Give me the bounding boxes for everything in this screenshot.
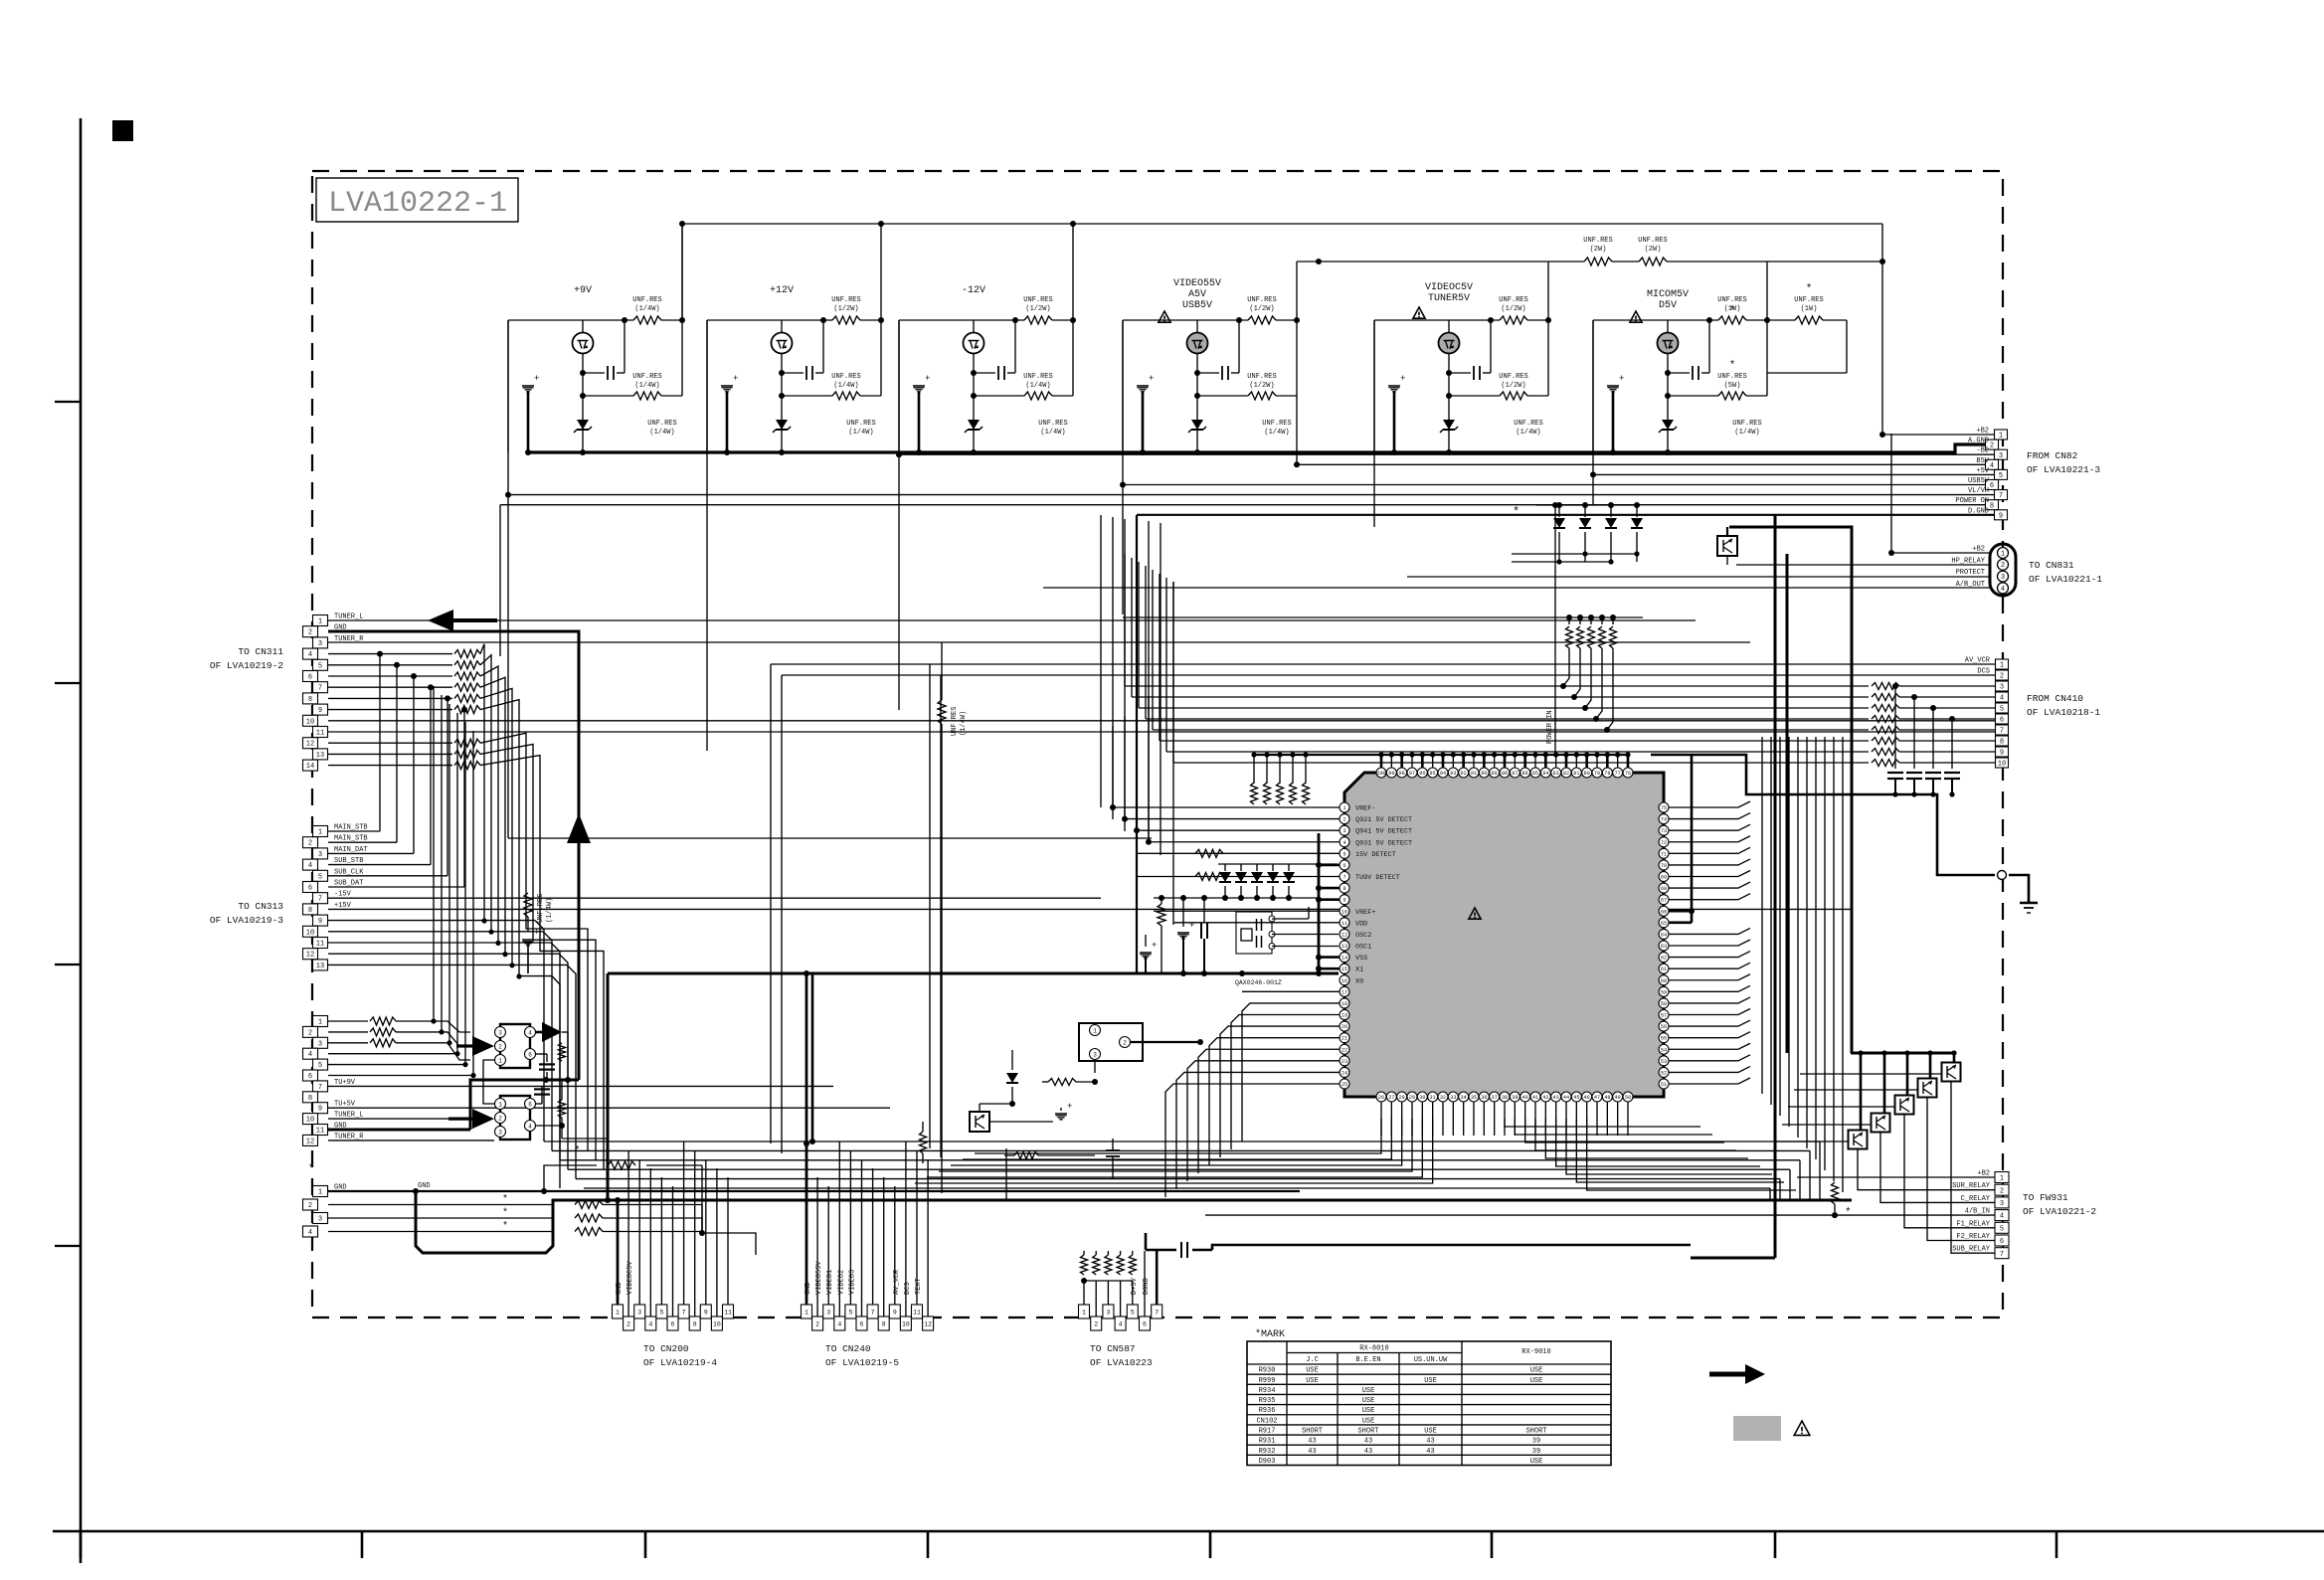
svg-text:4: 4 (308, 651, 312, 659)
svg-text:R930: R930 (1259, 1367, 1276, 1375)
svg-text:9: 9 (1999, 512, 2003, 520)
svg-text:29: 29 (1409, 1095, 1415, 1101)
svg-text:USE: USE (1362, 1387, 1375, 1395)
svg-text:+: + (1067, 1102, 1072, 1112)
svg-text:(1/4W): (1/4W) (546, 898, 554, 923)
svg-text:OF LVA10223: OF LVA10223 (1090, 1357, 1153, 1368)
svg-text:SUR_RELAY: SUR_RELAY (1952, 1182, 1991, 1190)
svg-text:AV_VCR: AV_VCR (1965, 657, 1991, 665)
svg-text:3: 3 (498, 1029, 502, 1036)
svg-text:6: 6 (308, 1073, 312, 1081)
svg-text:+: + (534, 374, 539, 384)
svg-text:VIDEO2: VIDEO2 (837, 1270, 845, 1295)
svg-text:99: 99 (1388, 771, 1394, 777)
svg-text:USB5V: USB5V (1182, 300, 1212, 311)
svg-text:3: 3 (318, 851, 322, 859)
svg-text:(1W): (1W) (1801, 305, 1818, 313)
svg-text:D903: D903 (1259, 1458, 1276, 1466)
svg-text:+5V: +5V (1976, 467, 1989, 475)
svg-text:UNF.RES: UNF.RES (1638, 237, 1667, 245)
svg-text:2: 2 (1123, 1039, 1127, 1046)
svg-text:(1/2W): (1/2W) (1249, 305, 1274, 313)
svg-text:5: 5 (2000, 706, 2004, 714)
svg-text:(1/4W): (1/4W) (649, 429, 674, 437)
svg-text:1: 1 (1082, 1309, 1086, 1316)
svg-text:MICOM5V: MICOM5V (1647, 289, 1689, 300)
svg-text:13: 13 (316, 752, 324, 760)
svg-text:5: 5 (848, 1309, 852, 1316)
svg-text:(1/2W): (1/2W) (1501, 305, 1525, 313)
svg-text:SHORT: SHORT (1525, 1428, 1546, 1436)
svg-text:5: 5 (659, 1309, 663, 1316)
svg-text:J.C: J.C (1306, 1356, 1319, 1364)
svg-text:*: * (502, 1207, 508, 1219)
svg-text:43: 43 (1308, 1448, 1316, 1456)
svg-text:8: 8 (1990, 502, 1994, 510)
svg-text:7: 7 (318, 1084, 322, 1092)
svg-text:71: 71 (1661, 851, 1667, 857)
svg-text:13: 13 (316, 963, 324, 970)
svg-text:7: 7 (1999, 492, 2003, 500)
svg-text:60: 60 (1661, 978, 1667, 984)
svg-text:2: 2 (626, 1320, 630, 1327)
svg-text:UNF.RES: UNF.RES (1247, 373, 1276, 381)
svg-text:39: 39 (1512, 1095, 1518, 1101)
svg-text:UNF.RES: UNF.RES (647, 420, 676, 428)
svg-text:CN102: CN102 (1256, 1417, 1277, 1425)
svg-text:(1/2W): (1/2W) (1249, 382, 1274, 390)
svg-text:3: 3 (2001, 574, 2005, 582)
svg-text:12: 12 (1341, 932, 1347, 938)
svg-text:1: 1 (2001, 550, 2005, 558)
svg-text:5: 5 (1999, 472, 2003, 480)
svg-text:98: 98 (1399, 771, 1405, 777)
svg-text:-15V: -15V (334, 891, 352, 899)
svg-text:*: * (1845, 1207, 1852, 1219)
svg-text:UNF.RES: UNF.RES (1717, 373, 1746, 381)
svg-text:(1/4W): (1/4W) (960, 711, 968, 736)
svg-text:43: 43 (1426, 1438, 1434, 1446)
svg-text:VIDEO3: VIDEO3 (848, 1270, 856, 1295)
svg-text:TO CN311: TO CN311 (238, 646, 283, 657)
svg-text:43: 43 (1364, 1448, 1372, 1456)
svg-text:2: 2 (1342, 817, 1345, 823)
svg-text:32: 32 (1440, 1095, 1446, 1101)
svg-text:UNF.RES: UNF.RES (1794, 296, 1823, 304)
svg-text:SUB_RELAY: SUB_RELAY (1952, 1246, 1991, 1254)
svg-text:59: 59 (1661, 989, 1667, 995)
svg-text:+B2: +B2 (1977, 1170, 1990, 1178)
svg-text:47: 47 (1594, 1095, 1600, 1101)
svg-text:HP_RELAY: HP_RELAY (1951, 557, 1985, 565)
svg-text:UNF.RES: UNF.RES (831, 373, 860, 381)
svg-text:43: 43 (1308, 1438, 1316, 1446)
svg-text:8: 8 (882, 1320, 886, 1327)
svg-text:12: 12 (306, 741, 314, 749)
svg-text:37: 37 (1492, 1095, 1498, 1101)
svg-text:+B2: +B2 (1972, 546, 1985, 554)
svg-text:SUB_CLK: SUB_CLK (334, 868, 364, 876)
svg-text:2: 2 (308, 1029, 312, 1037)
svg-text:4: 4 (1990, 462, 1994, 470)
svg-text:88: 88 (1502, 771, 1508, 777)
svg-text:43: 43 (1553, 1095, 1559, 1101)
svg-text:2: 2 (2000, 673, 2004, 681)
svg-text:39: 39 (1532, 1438, 1540, 1446)
svg-text:B.E.EN: B.E.EN (1355, 1356, 1380, 1364)
svg-text:USE: USE (1530, 1377, 1543, 1385)
svg-text:+: + (1619, 374, 1624, 384)
svg-text:53: 53 (1661, 1059, 1667, 1065)
svg-text:81: 81 (1573, 771, 1579, 777)
svg-text:89: 89 (1492, 771, 1498, 777)
svg-text:57: 57 (1661, 1013, 1667, 1019)
svg-text:UNF.RES: UNF.RES (1717, 296, 1746, 304)
svg-text:6: 6 (528, 1101, 532, 1108)
svg-text:93: 93 (1450, 771, 1456, 777)
svg-text:C_RELAY: C_RELAY (1961, 1195, 1991, 1203)
svg-text:+: + (1189, 921, 1194, 931)
svg-text:POWER IN: POWER IN (1546, 710, 1554, 744)
svg-text:*: * (1729, 360, 1736, 372)
svg-text:72: 72 (1661, 840, 1667, 846)
svg-text:20: 20 (1341, 1024, 1347, 1030)
svg-text:4: 4 (837, 1320, 841, 1327)
svg-text:VDD: VDD (1355, 920, 1367, 928)
svg-text:77: 77 (1615, 771, 1621, 777)
svg-text:B5V: B5V (1976, 457, 1989, 465)
svg-text:62: 62 (1661, 956, 1667, 962)
svg-text:39: 39 (1532, 1448, 1540, 1456)
svg-text:65: 65 (1661, 921, 1667, 927)
svg-text:UNF.RES: UNF.RES (951, 707, 959, 736)
svg-text:3: 3 (1999, 452, 2003, 460)
svg-text:FROM CN82: FROM CN82 (2027, 450, 2078, 461)
svg-text:USE: USE (1530, 1367, 1543, 1375)
svg-text:87: 87 (1512, 771, 1518, 777)
svg-text:TUNER_L: TUNER_L (334, 614, 363, 621)
svg-text:US.UN.UW: US.UN.UW (1414, 1356, 1448, 1364)
svg-text:21: 21 (1341, 1036, 1347, 1042)
svg-text:VIDEO55V: VIDEO55V (1173, 278, 1221, 289)
svg-text:(1/4W): (1/4W) (1734, 429, 1759, 437)
svg-text:VSS: VSS (1355, 955, 1367, 963)
svg-text:55: 55 (1661, 1036, 1667, 1042)
svg-text:75: 75 (1661, 805, 1667, 811)
svg-text:(2W): (2W) (1645, 246, 1662, 254)
svg-text:6: 6 (2000, 717, 2004, 725)
svg-text:-B2: -B2 (1976, 447, 1989, 455)
svg-text:1: 1 (1999, 433, 2003, 440)
svg-text:(1/4W): (1/4W) (1516, 429, 1540, 437)
svg-text:UNF.RES: UNF.RES (1583, 237, 1612, 245)
svg-text:6: 6 (860, 1320, 864, 1327)
svg-text:Q931 5V DETECT: Q931 5V DETECT (1355, 839, 1412, 847)
svg-text:6: 6 (528, 1051, 532, 1058)
svg-text:44: 44 (1563, 1095, 1569, 1101)
svg-text:10: 10 (1341, 909, 1347, 915)
svg-text:D5V: D5V (1659, 300, 1677, 311)
svg-text:MAIN_STB: MAIN_STB (334, 835, 368, 843)
svg-text:52: 52 (1661, 1070, 1667, 1076)
svg-text:8: 8 (308, 696, 312, 704)
svg-text:1: 1 (1342, 805, 1345, 811)
svg-text:90: 90 (1481, 771, 1487, 777)
svg-text:79: 79 (1594, 771, 1600, 777)
svg-text:RX-8010: RX-8010 (1359, 1345, 1388, 1353)
svg-text:OF LVA10221-1: OF LVA10221-1 (2029, 574, 2102, 585)
svg-text:100: 100 (1376, 771, 1385, 777)
svg-text:30: 30 (1419, 1095, 1425, 1101)
svg-text:QAX0246-001Z: QAX0246-001Z (1235, 979, 1282, 986)
svg-text:VIDEOC5V: VIDEOC5V (1425, 282, 1473, 293)
svg-text:14: 14 (306, 763, 314, 771)
svg-text:*: * (1806, 283, 1813, 295)
svg-text:6: 6 (308, 674, 312, 682)
svg-text:3: 3 (318, 640, 322, 648)
svg-text:41: 41 (1532, 1095, 1538, 1101)
svg-text:R935: R935 (1259, 1397, 1276, 1405)
svg-text:1: 1 (318, 618, 322, 626)
svg-text:R932: R932 (1259, 1448, 1276, 1456)
svg-text:4/B_IN: 4/B_IN (1965, 1208, 1990, 1216)
svg-text:51: 51 (1661, 1082, 1667, 1088)
svg-text:SUB_STB: SUB_STB (334, 857, 363, 865)
svg-text:DCS: DCS (1977, 668, 1990, 676)
svg-text:UNF.RES: UNF.RES (632, 296, 661, 304)
svg-text:F1_RELAY: F1_RELAY (1956, 1220, 1990, 1228)
svg-text:+: + (925, 374, 930, 384)
svg-text:POWER ON: POWER ON (1955, 497, 1989, 505)
svg-text:OF LVA10221-3: OF LVA10221-3 (2027, 464, 2100, 475)
svg-text:X1: X1 (1355, 966, 1363, 974)
svg-text:OSC1: OSC1 (1355, 944, 1371, 952)
svg-text:67: 67 (1661, 898, 1667, 904)
svg-text:4: 4 (2000, 1213, 2004, 1221)
svg-text:4: 4 (2000, 695, 2004, 703)
svg-text:VIDEO55V: VIDEO55V (815, 1261, 823, 1295)
svg-text:6: 6 (671, 1320, 675, 1327)
svg-text:MAIN_DAT: MAIN_DAT (334, 846, 368, 854)
svg-text:45: 45 (1573, 1095, 1579, 1101)
svg-text:SHORT: SHORT (1302, 1428, 1323, 1436)
svg-text:91: 91 (1471, 771, 1477, 777)
svg-text:D+5V: D+5V (1131, 1277, 1139, 1295)
svg-text:USE: USE (1530, 1458, 1543, 1466)
svg-text:8: 8 (1342, 886, 1345, 892)
svg-text:12: 12 (924, 1320, 932, 1327)
svg-text:5: 5 (1342, 851, 1345, 857)
svg-text:10: 10 (306, 1117, 314, 1125)
svg-text:+9V: +9V (574, 285, 592, 296)
svg-text:UNF.RES: UNF.RES (1262, 420, 1291, 428)
svg-text:1: 1 (2000, 662, 2004, 670)
svg-text:+: + (1152, 941, 1157, 951)
svg-text:61: 61 (1661, 966, 1667, 972)
svg-text:(1/4W): (1/4W) (634, 382, 659, 390)
svg-text:23: 23 (1341, 1059, 1347, 1065)
svg-text:1: 1 (616, 1309, 620, 1316)
svg-text:4: 4 (2001, 586, 2005, 594)
svg-text:82: 82 (1563, 771, 1569, 777)
svg-text:(1/4W): (1/4W) (1040, 429, 1065, 437)
svg-text:DCS: DCS (904, 1282, 912, 1295)
svg-text:13: 13 (1341, 944, 1347, 950)
svg-text:86: 86 (1522, 771, 1528, 777)
svg-text:33: 33 (1450, 1095, 1456, 1101)
svg-text:+: + (534, 928, 539, 938)
svg-text:TU+9V: TU+9V (334, 1079, 356, 1087)
svg-text:6: 6 (308, 885, 312, 893)
svg-text:*MARK: *MARK (1255, 1328, 1285, 1340)
svg-text:OF LVA10221-2: OF LVA10221-2 (2023, 1206, 2096, 1217)
svg-text:8: 8 (308, 907, 312, 915)
svg-text:18: 18 (1341, 1001, 1347, 1007)
svg-text:80: 80 (1584, 771, 1590, 777)
svg-text:VIDEOC5V: VIDEOC5V (626, 1261, 634, 1295)
svg-text:1: 1 (804, 1309, 808, 1316)
svg-text:F2_RELAY: F2_RELAY (1956, 1233, 1990, 1241)
svg-text:11: 11 (1341, 921, 1347, 927)
svg-text:7: 7 (1342, 875, 1345, 881)
svg-text:MAIN_STB: MAIN_STB (334, 824, 368, 832)
svg-text:TO CN587: TO CN587 (1090, 1343, 1136, 1354)
svg-text:*: * (502, 1221, 508, 1233)
svg-text:1: 1 (318, 829, 322, 837)
svg-text:4: 4 (1342, 840, 1345, 846)
svg-text:7: 7 (871, 1309, 875, 1316)
svg-text:5: 5 (1131, 1309, 1135, 1316)
svg-text:63: 63 (1661, 944, 1667, 950)
svg-text:1: 1 (1093, 1027, 1097, 1034)
svg-text:25: 25 (1341, 1082, 1347, 1088)
svg-text:9: 9 (2000, 750, 2004, 758)
svg-text:VIDEO1: VIDEO1 (826, 1270, 834, 1295)
svg-text:5: 5 (318, 1062, 322, 1070)
svg-text:1: 1 (318, 1189, 322, 1197)
svg-text:3: 3 (318, 1216, 322, 1224)
svg-text:TO CN240: TO CN240 (825, 1343, 871, 1354)
svg-text:11: 11 (913, 1309, 921, 1316)
svg-text:3: 3 (1342, 828, 1345, 834)
svg-text:4: 4 (528, 1123, 532, 1130)
svg-text:70: 70 (1661, 863, 1667, 869)
svg-text:TO CN313: TO CN313 (238, 901, 283, 912)
svg-text:USE: USE (1362, 1397, 1375, 1405)
svg-text:19: 19 (1341, 1013, 1347, 1019)
svg-text:3: 3 (826, 1309, 830, 1316)
svg-text:(1/4W): (1/4W) (1025, 382, 1050, 390)
svg-text:9: 9 (893, 1309, 897, 1316)
svg-text:84: 84 (1542, 771, 1548, 777)
svg-text:UNF.RES: UNF.RES (537, 894, 545, 923)
svg-text:68: 68 (1661, 886, 1667, 892)
svg-text:4: 4 (308, 1051, 312, 1059)
svg-text:31: 31 (1430, 1095, 1436, 1101)
svg-text:USE: USE (1306, 1367, 1319, 1375)
svg-text:17: 17 (1341, 989, 1347, 995)
svg-text:12: 12 (306, 1138, 314, 1145)
svg-text:69: 69 (1661, 875, 1667, 881)
svg-text:9: 9 (318, 918, 322, 926)
svg-text:22: 22 (1341, 1047, 1347, 1053)
svg-text:RX-9010: RX-9010 (1521, 1348, 1550, 1356)
svg-text:SUB_DAT: SUB_DAT (334, 880, 363, 888)
svg-text:(1/2W): (1/2W) (833, 305, 858, 313)
svg-text:10: 10 (306, 929, 314, 937)
svg-text:R936: R936 (1259, 1407, 1276, 1415)
svg-text:4: 4 (528, 1029, 532, 1036)
svg-text:2: 2 (308, 1202, 312, 1210)
svg-text:USE: USE (1362, 1417, 1375, 1425)
svg-text:28: 28 (1399, 1095, 1405, 1101)
svg-text:GND: GND (418, 1182, 431, 1190)
svg-text:R934: R934 (1259, 1387, 1276, 1395)
svg-text:24: 24 (1341, 1070, 1347, 1076)
svg-text:R999: R999 (1259, 1377, 1276, 1385)
svg-text:2: 2 (308, 840, 312, 848)
svg-text:TU+5V: TU+5V (334, 1101, 356, 1109)
svg-text:9: 9 (318, 1106, 322, 1114)
svg-text:4: 4 (308, 1229, 312, 1237)
svg-text:4: 4 (648, 1320, 652, 1327)
svg-text:9: 9 (704, 1309, 708, 1316)
svg-text:(1/4W): (1/4W) (848, 429, 873, 437)
svg-text:(1/4W): (1/4W) (634, 305, 659, 313)
svg-text:USB5V: USB5V (1968, 477, 1990, 485)
svg-text:SHORT: SHORT (1357, 1428, 1378, 1436)
svg-text:85: 85 (1532, 771, 1538, 777)
svg-text:R931: R931 (1259, 1438, 1276, 1446)
svg-text:97: 97 (1409, 771, 1415, 777)
svg-text:*: * (502, 1194, 508, 1206)
svg-text:11: 11 (316, 730, 324, 738)
svg-text:7: 7 (2000, 1251, 2004, 1259)
svg-text:8: 8 (2000, 739, 2004, 747)
svg-text:X0: X0 (1355, 977, 1363, 985)
svg-text:50: 50 (1625, 1095, 1631, 1101)
svg-text:11: 11 (316, 941, 324, 949)
svg-text:TEXT: TEXT (915, 1278, 923, 1295)
svg-text:+: + (733, 374, 738, 384)
svg-text:5: 5 (318, 662, 322, 670)
svg-text:+12V: +12V (770, 285, 794, 296)
svg-text:7: 7 (318, 685, 322, 693)
svg-text:Q941 5V DETECT: Q941 5V DETECT (1355, 828, 1412, 836)
svg-text:6: 6 (1143, 1320, 1147, 1327)
svg-text:11: 11 (724, 1309, 732, 1316)
svg-text:10: 10 (902, 1320, 910, 1327)
svg-text:*: * (1513, 505, 1520, 519)
svg-text:USE: USE (1362, 1407, 1375, 1415)
svg-text:UNF.RES: UNF.RES (1514, 420, 1542, 428)
svg-text:58: 58 (1661, 1001, 1667, 1007)
svg-text:3: 3 (498, 1129, 502, 1136)
svg-text:92: 92 (1461, 771, 1467, 777)
svg-text:A5V: A5V (1188, 289, 1206, 300)
svg-text:(1/2W): (1/2W) (1501, 382, 1525, 390)
svg-text:+B2: +B2 (1976, 428, 1989, 436)
svg-text:27: 27 (1388, 1095, 1394, 1101)
svg-text:+: + (1400, 374, 1405, 384)
svg-text:UNF.RES: UNF.RES (846, 420, 875, 428)
svg-text:UNF.RES: UNF.RES (1247, 296, 1276, 304)
svg-text:2: 2 (498, 1043, 502, 1050)
svg-text:-12V: -12V (962, 285, 985, 296)
svg-text:95: 95 (1430, 771, 1436, 777)
svg-text:38: 38 (1502, 1095, 1508, 1101)
svg-text:2: 2 (1990, 442, 1994, 450)
